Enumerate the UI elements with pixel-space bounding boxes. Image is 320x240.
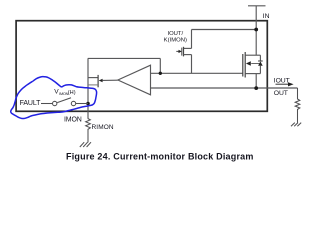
svg-text:FAULT: FAULT [20, 100, 42, 107]
svg-text:K(IMON): K(IMON) [164, 38, 187, 44]
svg-text:IOUT/: IOUT/ [167, 31, 183, 37]
svg-text:RIMON: RIMON [92, 124, 114, 131]
svg-text:OUT: OUT [274, 90, 288, 97]
svg-text:IOUT: IOUT [274, 78, 290, 85]
svg-text:IMON: IMON [64, 116, 82, 123]
svg-text:Figure 24. Current-monitor Bl: Figure 24. Current-monitor Block Diagram [66, 152, 254, 162]
svg-text:IN: IN [263, 13, 270, 20]
svg-text:(H): (H) [68, 90, 76, 96]
